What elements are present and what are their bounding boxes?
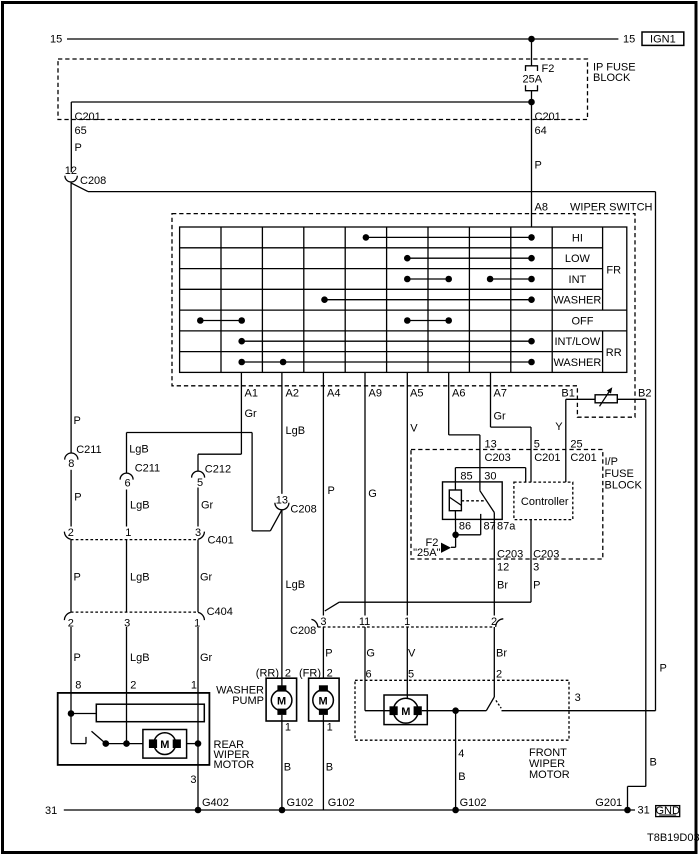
svg-text:64: 64 (535, 125, 547, 137)
svg-text:M: M (319, 696, 328, 708)
svg-text:LgB: LgB (286, 425, 306, 437)
svg-text:B1: B1 (561, 388, 574, 400)
svg-text:P: P (533, 579, 540, 591)
svg-text:3: 3 (195, 527, 201, 539)
svg-text:12: 12 (65, 165, 77, 177)
svg-text:"25A": "25A" (413, 547, 440, 559)
svg-text:MOTOR: MOTOR (529, 769, 570, 781)
svg-text:P: P (74, 572, 81, 584)
svg-text:WASHER: WASHER (553, 295, 601, 307)
svg-text:Controller: Controller (521, 496, 569, 508)
svg-text:B: B (326, 761, 333, 773)
svg-text:5: 5 (534, 439, 540, 451)
svg-text:P: P (74, 492, 81, 504)
svg-text:4: 4 (458, 748, 464, 760)
svg-text:F2: F2 (542, 63, 555, 75)
svg-text:G102: G102 (287, 797, 314, 809)
svg-text:C203: C203 (533, 549, 559, 561)
svg-text:30: 30 (484, 471, 496, 483)
svg-text:31: 31 (45, 805, 57, 817)
svg-text:FR: FR (606, 265, 621, 277)
svg-text:A2: A2 (286, 388, 299, 400)
svg-text:C201: C201 (535, 111, 561, 123)
svg-text:3: 3 (575, 692, 581, 704)
svg-text:3: 3 (190, 774, 196, 786)
svg-text:C211: C211 (135, 463, 160, 475)
svg-text:2: 2 (496, 669, 502, 681)
svg-text:C404: C404 (207, 606, 233, 618)
svg-text:1: 1 (327, 722, 333, 734)
svg-text:RR: RR (606, 347, 622, 359)
svg-text:25A: 25A (523, 74, 543, 86)
svg-text:G: G (368, 488, 377, 500)
svg-text:P: P (328, 485, 335, 497)
svg-text:LgB: LgB (130, 652, 150, 664)
svg-text:C208: C208 (290, 625, 316, 637)
svg-text:C212: C212 (205, 464, 231, 476)
svg-text:A7: A7 (494, 388, 507, 400)
svg-text:1: 1 (125, 527, 131, 539)
svg-text:G102: G102 (328, 797, 355, 809)
svg-text:Gr: Gr (494, 411, 507, 423)
svg-text:P: P (74, 415, 81, 427)
svg-text:5: 5 (408, 669, 414, 681)
svg-text:Gr: Gr (200, 652, 213, 664)
svg-text:85: 85 (460, 471, 472, 483)
svg-text:C211: C211 (76, 444, 101, 456)
svg-text:P: P (74, 652, 81, 664)
svg-text:C208: C208 (290, 503, 316, 515)
svg-text:25: 25 (570, 439, 582, 451)
svg-text:INT/LOW: INT/LOW (554, 336, 600, 348)
svg-text:2: 2 (68, 618, 74, 630)
svg-text:C201: C201 (570, 452, 596, 464)
svg-text:3: 3 (320, 616, 326, 628)
svg-text:5: 5 (197, 477, 203, 489)
svg-text:A6: A6 (452, 388, 465, 400)
svg-text:C401: C401 (208, 535, 234, 547)
svg-text:BLOCK: BLOCK (593, 72, 631, 84)
svg-text:P: P (75, 142, 82, 154)
svg-text:B: B (284, 761, 291, 773)
svg-text:C201: C201 (534, 452, 560, 464)
svg-text:2: 2 (130, 680, 136, 692)
svg-text:C203: C203 (497, 549, 523, 561)
svg-text:I/P: I/P (605, 456, 618, 468)
svg-text:15: 15 (623, 34, 635, 46)
svg-text:V: V (408, 648, 416, 660)
svg-text:B2: B2 (638, 388, 651, 400)
svg-text:BLOCK: BLOCK (605, 480, 643, 492)
svg-text:M: M (160, 739, 169, 751)
svg-text:LgB: LgB (129, 444, 149, 456)
svg-text:OFF: OFF (572, 315, 594, 327)
svg-text:1: 1 (191, 680, 197, 692)
svg-text:87a: 87a (497, 520, 516, 532)
svg-text:IGN1: IGN1 (650, 34, 676, 46)
svg-text:1: 1 (404, 616, 410, 628)
svg-text:LgB: LgB (286, 579, 306, 591)
svg-text:31: 31 (638, 805, 650, 817)
svg-text:12: 12 (497, 561, 509, 573)
svg-text:6: 6 (124, 478, 130, 490)
svg-text:P: P (325, 648, 332, 660)
svg-text:1: 1 (285, 722, 291, 734)
svg-text:8: 8 (68, 458, 74, 470)
svg-text:G102: G102 (460, 797, 487, 809)
svg-text:LgB: LgB (130, 572, 150, 584)
svg-text:A5: A5 (410, 388, 423, 400)
svg-text:Gr: Gr (200, 572, 213, 584)
svg-text:M: M (277, 696, 286, 708)
svg-text:A4: A4 (327, 388, 340, 400)
svg-text:Br: Br (496, 648, 507, 660)
svg-text:8: 8 (75, 680, 81, 692)
svg-text:3: 3 (124, 618, 130, 630)
svg-text:11: 11 (359, 616, 370, 628)
svg-text:15: 15 (50, 34, 62, 46)
svg-text:LgB: LgB (130, 500, 150, 512)
svg-text:2: 2 (491, 616, 497, 628)
svg-text:LOW: LOW (565, 253, 591, 265)
svg-text:6: 6 (366, 669, 372, 681)
svg-text:G402: G402 (202, 797, 229, 809)
svg-text:T8B19D03: T8B19D03 (647, 832, 700, 844)
svg-text:FUSE: FUSE (605, 468, 634, 480)
svg-text:Gr: Gr (201, 500, 214, 512)
svg-text:65: 65 (75, 125, 87, 137)
svg-text:B: B (458, 771, 465, 783)
svg-text:3: 3 (533, 561, 539, 573)
svg-text:B: B (650, 757, 657, 769)
svg-text:Y: Y (555, 421, 563, 433)
svg-text:A1: A1 (245, 388, 258, 400)
svg-text:MOTOR: MOTOR (214, 759, 255, 771)
svg-text:13: 13 (485, 439, 497, 451)
svg-text:1: 1 (194, 618, 200, 630)
svg-text:86: 86 (459, 520, 471, 532)
svg-text:G201: G201 (595, 797, 622, 809)
svg-text:13: 13 (276, 495, 288, 507)
svg-text:P: P (535, 160, 542, 172)
svg-text:C203: C203 (485, 452, 511, 464)
svg-text:V: V (410, 423, 418, 435)
svg-text:PUMP: PUMP (232, 695, 264, 707)
svg-text:P: P (660, 663, 667, 675)
svg-text:C208: C208 (80, 175, 106, 187)
svg-text:C201: C201 (75, 111, 101, 123)
svg-text:Gr: Gr (245, 408, 258, 420)
svg-text:HI: HI (572, 232, 583, 244)
svg-text:A9: A9 (369, 388, 382, 400)
svg-text:WASHER: WASHER (553, 357, 601, 369)
svg-text:G: G (366, 648, 375, 660)
svg-text:INT: INT (569, 274, 587, 286)
svg-text:Br: Br (497, 579, 508, 591)
svg-text:2: 2 (68, 527, 74, 539)
svg-text:WIPER SWITCH: WIPER SWITCH (570, 202, 653, 214)
svg-text:A8: A8 (535, 202, 548, 214)
svg-text:M: M (401, 706, 410, 718)
